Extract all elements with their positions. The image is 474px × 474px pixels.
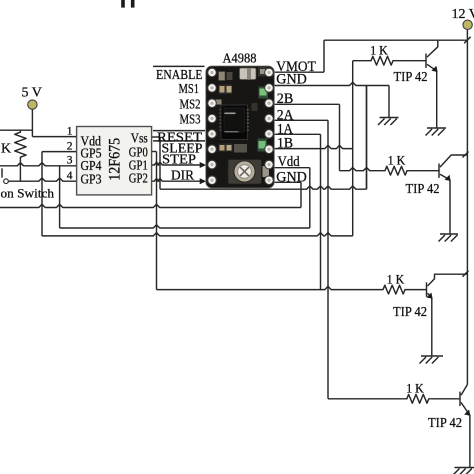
svg-text:Vdd: Vdd: [278, 154, 301, 170]
svg-text:2B: 2B: [277, 91, 294, 107]
svg-text:TIP 42: TIP 42: [428, 416, 462, 431]
svg-text:MS3: MS3: [180, 111, 201, 126]
svg-text:GND: GND: [276, 170, 307, 186]
svg-text:GND: GND: [276, 72, 307, 88]
svg-text:K: K: [1, 142, 11, 157]
svg-text:A4988: A4988: [223, 51, 257, 66]
svg-text:1 K: 1 K: [406, 381, 424, 396]
svg-text:1 K: 1 K: [370, 43, 388, 58]
svg-text:ENABLE: ENABLE: [156, 67, 203, 82]
svg-text:5 V: 5 V: [22, 86, 42, 101]
svg-text:3: 3: [67, 155, 73, 167]
svg-text:12F675: 12F675: [107, 138, 124, 181]
svg-text:on Switch: on Switch: [1, 186, 55, 201]
svg-text:DIR: DIR: [171, 168, 194, 183]
svg-text:Vss: Vss: [131, 131, 148, 146]
svg-text:1 K: 1 K: [387, 272, 405, 287]
svg-text:GP2: GP2: [129, 170, 148, 185]
svg-text:2: 2: [67, 140, 73, 152]
svg-text:1B: 1B: [277, 136, 293, 152]
svg-text:12 V: 12 V: [452, 7, 474, 22]
svg-text:4: 4: [67, 170, 73, 182]
svg-text:MS2: MS2: [180, 97, 201, 112]
svg-text:TIP 42: TIP 42: [394, 70, 428, 85]
svg-text:TIP 42: TIP 42: [406, 182, 440, 197]
svg-text:TIP 42: TIP 42: [393, 305, 427, 320]
svg-text:STEP: STEP: [162, 151, 196, 166]
svg-text:1 K: 1 K: [388, 153, 406, 168]
svg-text:MS1: MS1: [179, 81, 200, 96]
svg-text:GP3: GP3: [81, 171, 102, 186]
svg-text:1: 1: [67, 125, 73, 137]
